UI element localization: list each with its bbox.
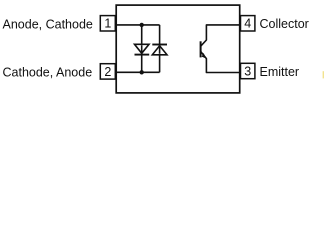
phototransistor Q1 base bar xyxy=(200,41,202,57)
svg-text:Anode, Cathode: Anode, Cathode xyxy=(3,17,93,31)
node: junction dot top rail xyxy=(140,23,144,27)
label: Cathode, Anode (pin 2) xyxy=(3,65,93,79)
pin 2 box xyxy=(100,64,115,79)
svg-text:1: 1 xyxy=(104,17,111,31)
phototransistor Q1 emitter line with arrow xyxy=(201,52,241,73)
diode D1 (left LED, cathode down) xyxy=(135,44,150,54)
pin 4 box xyxy=(241,16,255,31)
label: Emitter (pin 3) xyxy=(260,65,300,79)
node: junction dot bottom rail xyxy=(140,70,144,74)
svg-text:Collector: Collector xyxy=(260,17,309,31)
wire: left diode vertical branch xyxy=(141,25,143,72)
svg-text:2: 2 xyxy=(104,65,111,79)
pin 3 box xyxy=(241,63,255,78)
optocoupler package outline U1 xyxy=(116,5,240,93)
diode D2 (right LED, cathode up) xyxy=(152,45,167,55)
wire: right diode vertical branch xyxy=(159,25,161,72)
phototransistor Q1 collector line xyxy=(201,25,241,46)
wire: pin 2 to LED bottom rail xyxy=(115,71,160,73)
wire: pin 1 to LED top rail xyxy=(115,24,160,26)
label: Collector (pin 4) xyxy=(260,17,309,31)
label: Anode, Cathode (pin 1) xyxy=(3,17,93,31)
stray yellow artifact mark bottom right xyxy=(323,71,324,78)
pin 1 box xyxy=(100,16,115,31)
svg-text:Emitter: Emitter xyxy=(260,65,300,79)
svg-text:Cathode, Anode: Cathode, Anode xyxy=(3,65,93,79)
svg-text:3: 3 xyxy=(244,64,251,78)
svg-text:4: 4 xyxy=(244,17,251,31)
